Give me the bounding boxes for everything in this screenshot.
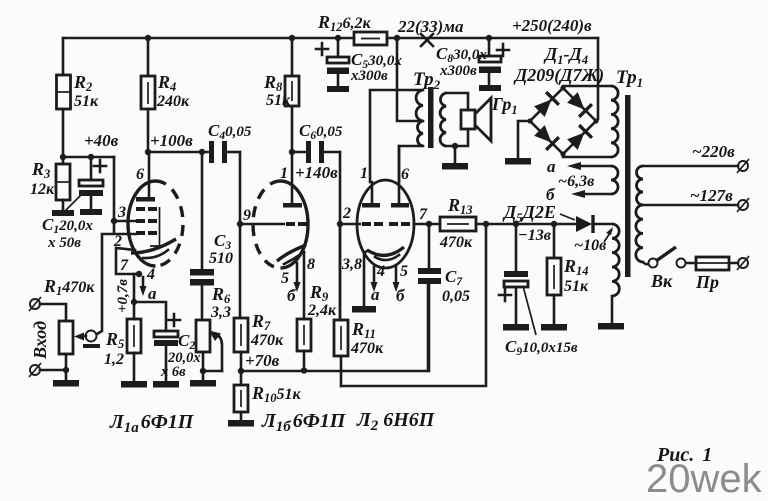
- pin 4 heater arrow L1a: [140, 266, 158, 303]
- resistor R11: [334, 224, 384, 386]
- wire L2 anode1 to Tr2 primary top: [370, 90, 423, 182]
- resistor R8: [263, 38, 299, 152]
- pin 4 heater arrow L2: [371, 263, 386, 304]
- wire L1a cathode to pins 7/4: [116, 248, 142, 302]
- diode bridge D1-D4 frame: [530, 88, 596, 154]
- svg-text:240к: 240к: [156, 93, 190, 110]
- junction pin9: [237, 221, 243, 227]
- diode D5: [502, 202, 612, 233]
- wire B+ top rail right segment after R12: [387, 37, 598, 40]
- svg-text:Л26Н6П: Л26Н6П: [356, 409, 436, 434]
- svg-text:Д209(Д7Ж): Д209(Д7Ж): [513, 65, 604, 86]
- ground below R10: [228, 420, 254, 427]
- wire pin8 to R9: [303, 252, 306, 319]
- pin 5 heater arrow L1b: [281, 263, 301, 305]
- capacitor C9: [499, 224, 578, 358]
- transformer Tr1 heater winding 6.3v: [611, 166, 618, 194]
- ground below speaker: [442, 163, 468, 170]
- pin 5 heater arrow L2: [393, 263, 409, 305]
- svg-text:3,8: 3,8: [341, 256, 362, 273]
- wire grid bus of L1a: [97, 157, 136, 334]
- ground below R6: [190, 380, 216, 387]
- svg-text:1: 1: [360, 165, 368, 182]
- net label ~10v with arrow: [574, 227, 613, 254]
- svg-text:~127в: ~127в: [690, 186, 733, 205]
- resistor R4: [141, 38, 190, 152]
- svg-text:~6,3в: ~6,3в: [558, 173, 594, 190]
- svg-text:+70в: +70в: [245, 351, 280, 370]
- wire B+ rail to bridge right corner: [597, 38, 600, 119]
- transformer Tr1 mains winding: [636, 166, 643, 262]
- svg-text:−13в: −13в: [518, 227, 551, 244]
- svg-text:С60,05: С60,05: [299, 121, 343, 142]
- svg-text:+250(240)в: +250(240)в: [512, 16, 592, 35]
- svg-text:+0,7в: +0,7в: [115, 279, 131, 313]
- potentiometer R6: [196, 284, 231, 380]
- svg-text:3,3: 3,3: [210, 304, 231, 321]
- svg-text:6: 6: [136, 166, 144, 183]
- svg-text:470к: 470к: [250, 332, 284, 349]
- svg-text:х300в: х300в: [350, 68, 388, 84]
- ground below bias winding: [598, 323, 624, 330]
- tube L1a grid bars: [136, 207, 160, 246]
- input terminal bottom: [29, 363, 41, 377]
- resistor R9: [297, 282, 337, 370]
- terminal 127v: [690, 186, 749, 212]
- ground below C1: [80, 209, 102, 215]
- diode D1 top-left: [533, 92, 559, 118]
- svg-text:1,2: 1,2: [104, 351, 124, 368]
- transformer Tr1 core: [625, 95, 631, 277]
- svg-text:51к: 51к: [266, 92, 291, 109]
- svg-text:7: 7: [419, 206, 428, 223]
- junction C7 top: [426, 221, 432, 227]
- wire pin9 to grid: [240, 223, 284, 226]
- svg-text:Л1б6Ф1П: Л1б6Ф1П: [261, 410, 347, 435]
- junction R1 bottom: [63, 367, 69, 373]
- svg-text:2: 2: [342, 205, 351, 222]
- junction node R8 top: [289, 35, 295, 41]
- wire L2 cathode to ground: [364, 251, 367, 306]
- svg-text:5: 5: [400, 263, 408, 280]
- tube L2 envelope: [357, 180, 414, 268]
- svg-text:1: 1: [280, 165, 288, 182]
- wire input top to R1: [40, 304, 66, 321]
- svg-text:2,4к: 2,4к: [307, 302, 337, 319]
- wire pin7 of L2 to R13: [414, 223, 440, 226]
- potentiometer R1: [43, 276, 95, 380]
- resistor R2: [57, 38, 100, 157]
- svg-text:9: 9: [243, 207, 251, 224]
- svg-text:4: 4: [376, 263, 385, 280]
- svg-text:Вк: Вк: [650, 271, 673, 291]
- wire Tr2 B+ feed: [397, 38, 423, 121]
- terminal mains: [737, 256, 749, 270]
- capacitor C3: [190, 152, 233, 320]
- resistor R13: [439, 195, 576, 251]
- svg-text:х300в: х300в: [439, 63, 477, 79]
- svg-text:R126,2к: R126,2к: [317, 12, 372, 34]
- svg-text:5: 5: [281, 270, 289, 287]
- junction bridge corners: [527, 85, 598, 156]
- tube L1b envelope: [253, 181, 308, 268]
- net arrow b: [546, 185, 611, 204]
- svg-text:R1051к: R1051к: [251, 383, 302, 405]
- junction R6 bottom: [200, 368, 206, 374]
- ground below C5: [327, 86, 349, 92]
- wire L2 anode2 to Tr2 primary bottom: [399, 146, 423, 182]
- tube L1b grid bars: [286, 222, 307, 226]
- svg-text:22(33)ма: 22(33)ма: [397, 17, 464, 36]
- tube L2 cathode: [367, 247, 404, 260]
- capacitor C7: [418, 224, 470, 371]
- tube L2 grid bars: [362, 222, 410, 226]
- ground below bridge: [505, 158, 531, 165]
- wire mains 220v tap: [643, 165, 738, 168]
- junction speaker ground: [452, 143, 458, 149]
- tube L1a envelope: [128, 181, 183, 266]
- svg-text:Д5Д2Е: Д5Д2Е: [502, 202, 556, 225]
- svg-text:а: а: [371, 285, 380, 304]
- input terminal top: [29, 297, 41, 311]
- current break mark 22(33)ma: [397, 17, 464, 46]
- tube L1b cathode: [277, 245, 306, 264]
- transformer Tr1 HV winding: [611, 86, 618, 157]
- svg-text:Пр: Пр: [695, 272, 719, 292]
- svg-text:С120,0х: С120,0х: [42, 215, 93, 236]
- junction node C8 top: [486, 35, 492, 41]
- junction R9 bottom: [301, 367, 307, 373]
- diode D3 bottom-left: [533, 124, 559, 150]
- wire mains 127v tap: [643, 204, 738, 207]
- capacitor C4: [208, 121, 252, 163]
- wire cathode node to C2: [134, 302, 166, 331]
- resistor R14: [547, 224, 589, 324]
- wire bridge top corner to Tr1 HV winding: [563, 86, 611, 87]
- switch Vk: [643, 247, 686, 291]
- junction pin3: [111, 218, 117, 224]
- svg-text:470к: 470к: [350, 340, 384, 357]
- svg-text:х 50в: х 50в: [47, 235, 81, 251]
- resistor R5: [104, 302, 141, 381]
- junction cathode node L1a: [131, 299, 137, 305]
- wire pin2 to grid: [340, 223, 360, 226]
- transformer Tr2 secondary winding: [440, 93, 446, 146]
- svg-text:51к: 51к: [564, 278, 589, 295]
- tube L1b anode: [283, 152, 302, 208]
- svg-text:~220в: ~220в: [692, 142, 735, 161]
- diode D4 bottom-right: [566, 125, 592, 151]
- svg-text:7: 7: [120, 257, 129, 274]
- capacitor C6: [299, 121, 343, 163]
- svg-text:6: 6: [401, 166, 409, 183]
- svg-text:+100в: +100в: [150, 131, 193, 150]
- capacitor C2: [154, 314, 201, 381]
- ground below R14: [541, 324, 567, 331]
- node +140v: [289, 149, 338, 182]
- svg-text:х 6в: х 6в: [160, 364, 186, 380]
- svg-text:12к: 12к: [30, 181, 55, 198]
- wire B+ top rail left segment: [63, 37, 354, 40]
- svg-text:~10в: ~10в: [574, 237, 606, 254]
- ground below C2: [153, 381, 179, 388]
- tube L2 anodes: [362, 146, 409, 208]
- wire bias winding to ground: [611, 296, 614, 323]
- svg-text:а: а: [547, 157, 556, 176]
- ground below L2 cathode: [352, 306, 376, 313]
- svg-text:4: 4: [146, 266, 155, 283]
- junction node R4 top: [145, 35, 151, 41]
- capacitor C5: [316, 38, 402, 86]
- speaker Gr1: [461, 94, 518, 141]
- svg-text:+40в: +40в: [84, 131, 119, 150]
- ground below R3: [52, 210, 74, 216]
- svg-text:0,05: 0,05: [442, 288, 470, 305]
- ground below C9: [503, 324, 529, 331]
- ground below R5: [121, 381, 147, 388]
- tube L1a cathode: [131, 239, 176, 258]
- node +40v: [60, 131, 119, 160]
- wire feedback line B: [341, 224, 486, 386]
- junction wire B top: [483, 221, 489, 227]
- svg-text:С40,05: С40,05: [208, 121, 252, 142]
- wire grid bus of L2: [339, 152, 342, 320]
- resistor R3: [30, 157, 70, 210]
- wire bridge bottom corner to Tr1 HV winding: [563, 154, 611, 157]
- diode D2 top-right: [566, 91, 592, 117]
- net arrow a: [547, 157, 611, 176]
- resistor R10: [234, 371, 302, 420]
- svg-text:51к: 51к: [74, 93, 99, 110]
- ground below R1: [53, 380, 79, 387]
- junction R7 bottom: [238, 368, 244, 374]
- junction node C5 top: [335, 35, 341, 41]
- wire grid bus of L1b: [239, 152, 242, 318]
- node +100v: [145, 131, 211, 155]
- svg-text:20wek: 20wek: [646, 457, 763, 501]
- transformer Tr1 bias winding 10v: [612, 224, 619, 296]
- terminal 220v: [692, 142, 749, 173]
- wire feedback line A: [241, 285, 428, 371]
- wire bridge left corner to ground: [518, 121, 530, 158]
- resistor R12: [317, 12, 387, 45]
- capacitor C8: [436, 38, 509, 85]
- transformer Tr2 primary winding: [416, 90, 423, 146]
- svg-text:8: 8: [307, 256, 315, 273]
- svg-text:470к: 470к: [439, 234, 473, 251]
- junction R14 top: [551, 221, 557, 227]
- svg-text:С910,0х15в: С910,0х15в: [505, 337, 578, 358]
- capacitor C1: [42, 157, 106, 251]
- svg-text:С830,0х: С830,0х: [436, 44, 487, 65]
- junction node Tr2 feed: [394, 35, 400, 41]
- wire input bottom to R1: [40, 369, 66, 372]
- svg-text:Д1-Д4: Д1-Д4: [543, 44, 588, 67]
- wiper of R1 with shield terminal: [74, 331, 100, 349]
- svg-text:R1470к: R1470к: [43, 276, 95, 298]
- wiper of R6: [203, 331, 222, 372]
- junction C9 top: [513, 221, 519, 227]
- fuse Pr: [686, 257, 738, 292]
- svg-text:510: 510: [209, 250, 233, 267]
- transformer Tr2 core: [428, 87, 434, 148]
- tube L1a anode: [136, 152, 155, 202]
- svg-text:Л1а6Ф1П: Л1а6Ф1П: [109, 411, 195, 436]
- wire speaker ground stem: [454, 146, 457, 163]
- wire Tr2 secondary to speaker: [446, 93, 468, 146]
- svg-text:а: а: [148, 284, 157, 303]
- resistor R7: [234, 311, 284, 371]
- ground below C8: [479, 85, 501, 91]
- junction pin2: [337, 221, 343, 227]
- svg-text:Вход: Вход: [30, 321, 50, 360]
- svg-text:+140в: +140в: [295, 163, 338, 182]
- svg-text:3: 3: [117, 204, 126, 221]
